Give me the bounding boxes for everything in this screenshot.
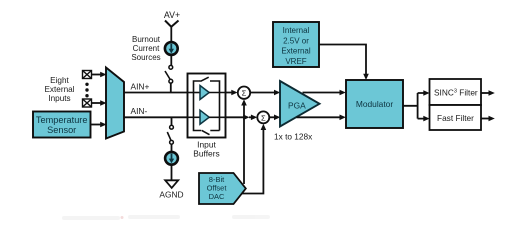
label: burnout current sources <box>131 35 160 62</box>
svg-text:Inputs: Inputs <box>48 94 70 103</box>
summing junction sum2 <box>257 111 269 123</box>
node: ellipsis dots between terminals <box>85 83 88 98</box>
buffer amplifier A1 <box>200 86 209 100</box>
arrow into fast filter <box>423 116 429 122</box>
wire: current source to ground <box>171 165 173 180</box>
wire: PGA top output to modulator <box>303 90 346 96</box>
arrow into sinc filter <box>423 90 429 96</box>
fast filter block <box>430 105 482 130</box>
buffer amplifier A2 <box>200 110 209 124</box>
input buffers outer box <box>188 74 226 138</box>
wire: AIN- line to switch S2 <box>171 117 173 125</box>
wire: buffer A1 output <box>209 92 226 94</box>
switch S1 (burnout+) <box>165 65 173 83</box>
svg-text:Σ: Σ <box>242 89 247 98</box>
input terminal X2 (crossed square) <box>83 99 92 107</box>
wire: AIN- inside buffer box <box>188 116 201 118</box>
svg-text:Temperature: Temperature <box>36 115 88 125</box>
wire: AV+ to current source <box>170 26 172 42</box>
svg-text:Modulator: Modulator <box>356 99 393 109</box>
switch S2 (burnout-) <box>167 125 173 144</box>
svg-text:Eight: Eight <box>50 76 69 85</box>
wire: AIN- mux to sum2 (double arrow) <box>124 115 257 121</box>
vref block: internal 2.5V or external VREF <box>273 22 319 67</box>
wire: modulator to filters split <box>403 93 424 119</box>
wire: fast filter output <box>481 116 495 122</box>
burnout current source bottom (circle with down arrow) <box>165 152 178 165</box>
PGA amplifier <box>280 81 320 127</box>
wire: DAC to sum1 (vertical, crosses AIN-) <box>241 99 247 184</box>
input buffers inner box with bypass switch gaps <box>194 77 220 135</box>
sinc3 filter block <box>430 79 482 105</box>
label: input buffers <box>193 140 219 159</box>
wire: buffer A2 output <box>209 116 226 118</box>
modulator block <box>346 80 403 128</box>
svg-text:External: External <box>44 85 74 94</box>
svg-text:1x to 128x: 1x to 128x <box>274 132 313 142</box>
node: eight external inputs label <box>44 76 74 103</box>
svg-text:DAC: DAC <box>209 192 225 201</box>
svg-text:AIN-: AIN- <box>131 106 148 116</box>
wire: VREF to modulator top <box>319 45 369 81</box>
wire: sinc filter output <box>481 90 495 96</box>
svg-text:2.5V or: 2.5V or <box>283 36 309 45</box>
wire: terminal X2 to mux <box>92 100 107 106</box>
wire: sum1 to PGA <box>250 90 280 96</box>
svg-text:Sensor: Sensor <box>47 125 76 135</box>
artifact smudges (scan noise) <box>62 215 270 220</box>
svg-text:Fast Filter: Fast Filter <box>437 113 474 123</box>
input terminal X1 (crossed square) <box>83 71 92 79</box>
power rail AV+ <box>164 10 180 27</box>
burnout current source top (circle with down arrow) <box>165 42 178 55</box>
summing junction sum1 <box>238 87 250 99</box>
svg-text:Σ: Σ <box>261 113 266 122</box>
svg-text:Sources: Sources <box>131 53 160 62</box>
svg-text:Current: Current <box>133 44 160 53</box>
svg-text:AIN+: AIN+ <box>131 82 150 92</box>
multiplexer <box>106 68 124 139</box>
wire: DAC to sum2 <box>241 124 267 194</box>
wire: switch S1 to AIN+ line <box>170 83 172 92</box>
wire: AIN+ inside buffer box <box>188 92 201 94</box>
8-bit offset DAC <box>199 173 246 204</box>
ground AGND <box>159 180 183 199</box>
wire: PGA bottom output to modulator <box>297 115 346 121</box>
wire: sum2 to PGA <box>269 115 280 121</box>
svg-text:AV+: AV+ <box>164 10 180 20</box>
svg-text:Buffers: Buffers <box>193 149 219 159</box>
wire: temperature sensor to mux <box>91 122 107 128</box>
svg-text:Internal: Internal <box>283 26 310 35</box>
svg-text:Burnout: Burnout <box>132 35 161 44</box>
wire: switch S2 to current source bottom <box>171 144 173 152</box>
svg-text:PGA: PGA <box>288 100 306 110</box>
wire: AIN+ mux to sum1 <box>124 90 238 96</box>
wire: terminal X1 to mux <box>92 72 107 78</box>
svg-text:External: External <box>281 47 311 56</box>
svg-text:AGND: AGND <box>159 190 183 200</box>
svg-text:VREF: VREF <box>285 57 306 66</box>
wire: current source to switch S1 <box>170 56 172 66</box>
temperature sensor block <box>33 112 91 138</box>
